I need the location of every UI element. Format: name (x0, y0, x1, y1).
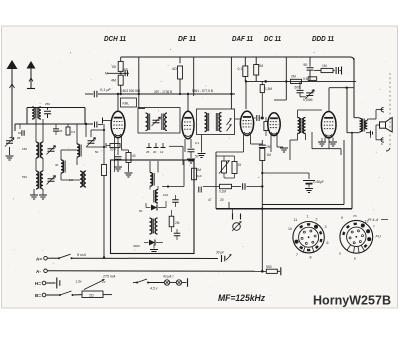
tiny label 47 (208, 198, 212, 202)
wire second supply bus (246, 80, 356, 82)
diode D1 (146, 201, 166, 211)
terminal label B= (35, 293, 41, 298)
speaker terminal hook bottom (381, 138, 384, 142)
IF transformer T5 lower winding (155, 218, 157, 234)
capacitor C6 screen bypass (122, 68, 128, 76)
svg-text:4,5 v: 4,5 v (150, 286, 158, 290)
tube socket diagram SK2 (340, 220, 373, 253)
svg-text:25: 25 (17, 136, 21, 140)
terminal A- circle (44, 269, 48, 273)
wire screen node (105, 72, 129, 76)
wire oscillator links (61, 150, 80, 180)
oscillator coil L5 (77, 144, 81, 157)
band indicator box (121, 98, 137, 107)
output transformer T6 core (363, 119, 365, 132)
wire L1 to frame (27, 108, 85, 125)
ground V1 bypass (114, 167, 122, 171)
IF transformer T3 windings (298, 118, 306, 134)
resistor R12 under V4 (264, 117, 268, 136)
svg-text:30 μF: 30 μF (216, 251, 225, 255)
IF transformer T1 shield box (138, 108, 180, 134)
resistor R10 grid leak (260, 81, 272, 100)
svg-text:1503 530 561: 1503 530 561 (121, 89, 141, 93)
svg-text:4000: 4000 (133, 244, 140, 248)
svg-text:50: 50 (304, 63, 308, 67)
svg-text:1=50μF: 1=50μF (313, 180, 324, 184)
wire heater branch (133, 282, 137, 284)
svg-text:1,3v: 1,3v (76, 279, 82, 283)
wire V2 top lead (187, 93, 189, 111)
ground under antenna (6, 156, 14, 160)
capacitor C19 (259, 140, 272, 149)
wire bus corner to OT top (354, 58, 360, 118)
tiny label 4000 (133, 244, 140, 248)
svg-text:DDD 11: DDD 11 (312, 34, 334, 43)
svg-text:43 μA·τ: 43 μA·τ (163, 275, 174, 279)
wire R15 R16 bottom (224, 173, 235, 178)
svg-text:1M: 1M (267, 153, 272, 157)
value label 0,1 DF (195, 141, 200, 145)
pickup jack P (232, 222, 242, 232)
capacitor end bar (277, 267, 281, 275)
output transformer T6 secondary (365, 121, 367, 129)
dashed feedback wire (389, 73, 391, 148)
wire lower box (262, 140, 344, 205)
wire electrolytic rail (261, 172, 309, 174)
resistor R2 screen dropper (112, 57, 123, 71)
resistor R16 (232, 162, 241, 174)
svg-text:1: 1 (307, 215, 309, 219)
wire coil frame verticals (36, 119, 43, 171)
resistor R14 on box edge (192, 168, 202, 180)
heater terminal 20 under V2 (153, 143, 159, 154)
trimmer capacitor C3 (47, 146, 56, 155)
svg-text:6: 6 (327, 241, 329, 245)
svg-text:2M: 2M (197, 168, 202, 172)
svg-text:4M: 4M (111, 79, 116, 83)
trimmer capacitor C1 on antenna lead (5, 138, 14, 147)
tube V5 DDD11 (321, 112, 336, 138)
svg-text:4Ω: 4Ω (172, 67, 177, 71)
wire A- bus (47, 270, 266, 273)
trimmer capacitor C4 (47, 176, 56, 185)
speaker terminal hook top (381, 107, 384, 111)
speaker cone (386, 118, 393, 132)
wire into box left (115, 161, 159, 173)
capacitor C2 beside L1 (44, 108, 51, 119)
wire H stub (46, 282, 56, 284)
variable capacitor C5 (87, 138, 96, 147)
wire to lamps (148, 282, 164, 284)
wire B stub (46, 294, 60, 296)
wire to rheostat (73, 294, 83, 296)
svg-text:50 F: 50 F (110, 148, 116, 152)
wire dial cord line (98, 93, 235, 95)
resistor R9 0.5M (303, 77, 317, 81)
svg-text:500: 500 (295, 86, 301, 90)
plug connector on A= end (216, 251, 232, 263)
junction dots on riser (261, 208, 263, 210)
current label 9mA (77, 253, 86, 257)
wire between lamps (170, 282, 177, 284)
label 1,3v (76, 279, 82, 283)
heavy return wire (216, 208, 352, 210)
svg-text:50: 50 (139, 209, 143, 213)
resistor R3 (111, 75, 123, 95)
capacitor C15 det (172, 195, 179, 207)
wire V1 top lead (117, 93, 119, 112)
trimmer capacitor C11 (303, 90, 314, 102)
wire T3 bottom (290, 134, 306, 161)
tube label DC 11 (264, 34, 281, 43)
resistor R13 det load (169, 210, 180, 232)
volume control R15 (219, 161, 230, 174)
diode D2 (144, 240, 163, 246)
svg-text:10: 10 (288, 227, 292, 231)
wire C10-C11 link (300, 93, 306, 97)
switch S3 (136, 279, 149, 284)
svg-text:1M: 1M (322, 64, 327, 68)
pilot lamp LP1 (164, 280, 169, 285)
value label 30 (55, 163, 59, 167)
IF transformer T4 lower winding (154, 190, 158, 204)
wire rheostat out (103, 294, 112, 296)
junction dot front-end (103, 129, 105, 148)
value label 50 mixer (95, 150, 99, 154)
wire band bus (15, 123, 93, 137)
terminal label H= (35, 281, 41, 286)
tube label DCH 11 (5, 34, 392, 308)
svg-text:1M: 1M (69, 178, 74, 182)
wire front-end down lead (103, 256, 105, 258)
tuning coil L2 (36, 142, 43, 158)
wire AF rail (215, 152, 217, 209)
terminal label A= (36, 256, 42, 261)
wire V5 grid lead (328, 88, 330, 112)
capacitor C13 V2 cathode (187, 149, 195, 163)
wire DDD grid node (329, 87, 354, 89)
rheostat wiper arrow (84, 280, 105, 290)
wire V4 bottom leads (271, 135, 288, 152)
title Horny W257B (313, 293, 391, 308)
tiny label 50 (139, 209, 143, 213)
svg-text:M: M (105, 72, 108, 76)
svg-text:15: 15 (238, 163, 242, 167)
svg-text:0,1 μF: 0,1 μF (100, 88, 111, 92)
IF transformer T1 secondary (152, 113, 168, 131)
svg-text:0,1M: 0,1M (219, 190, 226, 194)
svg-text:0,5: 0,5 (71, 130, 76, 134)
svg-text:DAF 11: DAF 11 (232, 34, 253, 43)
wire det node (162, 161, 184, 188)
svg-text:e: e (354, 257, 356, 261)
wire OT secondary to speaker top (367, 110, 383, 121)
tube label DAF 11 (232, 34, 253, 43)
rheostat R20 2ohm (82, 291, 103, 298)
trimmer arrows on T2 (227, 119, 232, 132)
speaker magnet (380, 122, 386, 128)
IF frequency note MF=125kHz (218, 293, 265, 303)
wire mixer link (77, 124, 105, 147)
capacitor C24 left (17, 130, 24, 140)
svg-text:Pl 4–6: Pl 4–6 (368, 218, 378, 222)
svg-text:50: 50 (95, 150, 99, 154)
capacitor C14 between V3 V4 (254, 115, 262, 121)
resistor R7 on bus2 (291, 75, 302, 84)
wire left drop (15, 124, 20, 131)
svg-text:0,1: 0,1 (195, 141, 200, 145)
socket SK1 pin numbers (288, 215, 329, 260)
resistor R4 DF screen (172, 57, 183, 95)
svg-text:0,04M: 0,04M (303, 98, 313, 102)
capacitor C10 5000pF (295, 81, 304, 92)
svg-text:2: 2 (316, 217, 318, 221)
wire R15 R16 top (216, 156, 235, 162)
svg-text:250: 250 (45, 102, 50, 106)
svg-text:0,1: 0,1 (238, 67, 243, 71)
svg-text:1,5M: 1,5M (265, 87, 272, 91)
svg-text:B=: B= (35, 293, 41, 298)
capacitor C22 series grid (95, 122, 104, 128)
resistor R1 in cathode lead (102, 124, 107, 258)
tube V2 DF11 (182, 111, 194, 139)
capacitor C23 band filter (53, 124, 63, 135)
tiny label 20 (220, 198, 224, 202)
svg-text:2M: 2M (259, 64, 264, 68)
value label 150 on L2 (22, 147, 27, 151)
wire V1 bottom leads (115, 136, 122, 162)
wire V2 anode corner (169, 146, 183, 165)
svg-text:A=: A= (36, 256, 42, 261)
capacitor C9 end (336, 67, 341, 75)
dashed wire hook (381, 142, 390, 151)
resistor R5 dropper (238, 57, 248, 81)
wire A= bus (72, 257, 219, 259)
svg-text:2M: 2M (175, 221, 180, 225)
value label 1M (69, 178, 74, 182)
IF transformer T2 primary (205, 113, 209, 132)
label 43mA (163, 275, 174, 279)
IF transformer T2 secondary (216, 113, 221, 132)
svg-text:t: t (374, 225, 375, 229)
svg-text:530: 530 (22, 175, 27, 179)
svg-text:8: 8 (310, 256, 312, 260)
resistor R21 50F under V1 (106, 143, 120, 152)
switch S1 (58, 254, 73, 259)
label 275mA (102, 275, 116, 279)
capacitor C16 det (174, 229, 181, 240)
svg-text:m: m (354, 214, 357, 218)
svg-text:a: a (341, 216, 343, 220)
dial scale text 5561-5775 B (192, 89, 213, 93)
capacitor C21 at OT (366, 131, 373, 139)
svg-text:HornyW257B: HornyW257B (313, 293, 391, 308)
antenna coupling coil L1 (32, 107, 41, 119)
resistor R6 dropper (254, 57, 264, 81)
svg-text:11: 11 (294, 218, 298, 222)
wire T3 top (298, 110, 323, 118)
svg-text:50: 50 (195, 155, 199, 159)
oscillator coil L4 (61, 160, 65, 173)
wire IFT-B to V3 link (235, 118, 241, 120)
capacitor C18 AF (243, 183, 264, 190)
IF transformer T4 upper winding (150, 173, 154, 187)
capacitor C12 V1 (115, 157, 122, 166)
svg-text:287 - 1736 B: 287 - 1736 B (154, 90, 172, 94)
antenna A2 lead (29, 69, 33, 88)
wire IFT-B feeder (193, 57, 195, 96)
tuning coil L3 (36, 171, 43, 189)
plug symbol H (57, 278, 60, 289)
ground in box (150, 245, 158, 254)
svg-text:5μF: 5μF (197, 174, 202, 178)
tube V1 DCH11 (111, 111, 125, 137)
svg-text:DCH 11: DCH 11 (104, 34, 126, 43)
svg-text:100: 100 (163, 193, 168, 197)
wire speaker bottom lead (376, 125, 384, 140)
electrolytic capacitor C20 50uF (303, 173, 324, 193)
detector shield box (111, 160, 195, 254)
svg-text:MF=125kHz: MF=125kHz (218, 293, 265, 303)
pilot lamp LP2 (176, 280, 181, 285)
resistor R22 small (66, 124, 76, 135)
svg-text:5561 - 577,5 B: 5561 - 577,5 B (192, 89, 213, 93)
svg-text:25F: 25F (122, 68, 128, 72)
junction blob V3-V4 (261, 100, 264, 120)
wire IFT-A feeder (138, 57, 145, 109)
wire antenna to ground (10, 137, 13, 155)
wire AF coupling (203, 186, 241, 188)
resistor R18 (260, 149, 271, 271)
svg-text:DF 11: DF 11 (178, 34, 196, 43)
tube socket diagram SK1 (293, 222, 324, 253)
ground 50pF node (195, 135, 206, 159)
svg-text:250: 250 (266, 145, 272, 149)
dial scale text 287-1736 B (154, 90, 172, 94)
svg-text:25: 25 (146, 150, 150, 154)
terminal label A- (36, 269, 41, 274)
resistor R19 500 (266, 265, 277, 274)
ground under L6 (39, 189, 47, 199)
svg-text:150: 150 (22, 147, 27, 151)
svg-text:47: 47 (208, 198, 212, 202)
IF transformer T2 shield box (197, 109, 235, 135)
wire A= to switch (47, 257, 59, 259)
heater terminal 12 under V2 (160, 143, 166, 154)
wire DC11 feeder (274, 57, 287, 100)
terminal H circle (42, 281, 46, 285)
capacitor C8 50pF (304, 57, 314, 81)
wire jack drop (228, 202, 230, 209)
socket SK2 annotation FU (376, 234, 381, 239)
svg-text:500: 500 (266, 265, 272, 269)
tube V3 DAF11 (240, 111, 253, 135)
svg-text:25: 25 (59, 129, 63, 133)
wire V3 grid lead (245, 80, 247, 109)
svg-text:9 mA: 9 mA (77, 253, 86, 257)
svg-text:20: 20 (153, 150, 157, 154)
ground V1 cathode (125, 173, 133, 177)
capacitor C7 0.1uF in dial line (85, 88, 111, 97)
wire top of input section (27, 107, 85, 109)
terminal A= circle (44, 256, 48, 260)
jack post 1 (232, 209, 234, 220)
tiny label 100 (163, 193, 168, 197)
svg-text:275 mA: 275 mA (102, 275, 116, 279)
antenna A2 symbol (27, 61, 36, 69)
output transformer T6 primary (360, 118, 362, 131)
wire DAF feeder (230, 57, 232, 109)
junction dot on bus2 (264, 80, 267, 83)
wire V5 cathode drop (328, 139, 330, 149)
socket SK2 pin numbers (339, 214, 375, 261)
svg-text:30: 30 (55, 163, 59, 167)
dial scale text 1503 530 561 (121, 89, 141, 93)
resistor R11 V1 cathode (122, 150, 136, 172)
svg-text:KML: KML (123, 102, 130, 106)
wire B+ riser to OT bottom (347, 88, 360, 133)
value label 250 L1 (45, 102, 50, 106)
svg-text:7: 7 (296, 253, 298, 257)
tube label DDD 11 (312, 34, 334, 43)
svg-text:3: 3 (325, 225, 327, 229)
heater terminal 25 under V2 (146, 143, 152, 154)
tube label DF 11 (178, 34, 196, 43)
junction A- and R18 (261, 270, 264, 273)
wire top supply bus (121, 57, 354, 109)
socket SK2 annotation Pl (368, 218, 388, 222)
svg-text:50: 50 (112, 65, 116, 69)
terminal B circle (42, 293, 46, 297)
wire V5 bias rail (312, 132, 341, 155)
svg-text:c: c (381, 142, 383, 146)
svg-text:20: 20 (220, 198, 224, 202)
svg-text:0,5: 0,5 (303, 77, 308, 81)
svg-text:2v: 2v (102, 280, 106, 284)
antenna A1 down-lead wire (10, 69, 15, 137)
antenna A1 symbol (7, 60, 18, 69)
wire return riser (351, 132, 353, 209)
IF transformer T1 primary (146, 113, 150, 131)
ground under L3 (30, 189, 38, 199)
svg-text:H=: H= (35, 281, 41, 286)
svg-text:A-: A- (36, 269, 41, 274)
paper speckle texture (13, 30, 386, 299)
wire T4 link (150, 186, 158, 190)
earth bar under A2 (27, 87, 35, 89)
wire V2 bottom leads (185, 139, 191, 152)
label 4,5v (150, 286, 158, 290)
capacitor C17 on box edge (199, 187, 201, 193)
svg-text:40: 40 (132, 154, 136, 158)
svg-text:2Ω: 2Ω (89, 293, 94, 297)
svg-text:FU: FU (376, 234, 381, 239)
switch S2 (59, 291, 74, 296)
svg-text:o: o (339, 252, 341, 256)
wire lamp end (182, 278, 188, 287)
value label 530 on L3 (22, 175, 27, 179)
resistor R17 AF (219, 184, 232, 193)
jack post 2 (240, 214, 242, 220)
svg-text:DC 11: DC 11 (264, 34, 281, 43)
wire V3 bottom leads (216, 135, 262, 152)
label 2v (102, 280, 106, 284)
ground V5 left (318, 138, 326, 147)
svg-text:2M: 2M (291, 75, 296, 79)
wire V1 grid tap (103, 118, 112, 124)
IF transformer T5 upper winding (150, 218, 154, 234)
oscillator coil L6 (80, 171, 86, 187)
